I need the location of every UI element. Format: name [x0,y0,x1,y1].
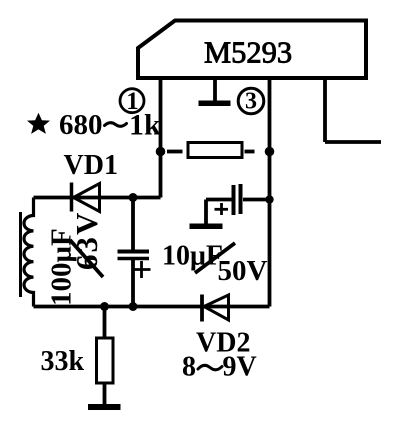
svg-text:50V: 50V [218,255,268,287]
svg-text:1k: 1k [129,109,161,142]
svg-text:10μF: 10μF [162,241,223,272]
svg-text:3: 3 [245,89,257,115]
svg-text:VD1: VD1 [64,150,118,181]
svg-text:M5293: M5293 [204,36,292,70]
svg-text:9V: 9V [223,352,257,383]
svg-text:63V: 63V [69,211,104,270]
svg-text:33k: 33k [41,346,85,377]
svg-text:8: 8 [182,352,196,383]
svg-text:680: 680 [59,109,103,141]
